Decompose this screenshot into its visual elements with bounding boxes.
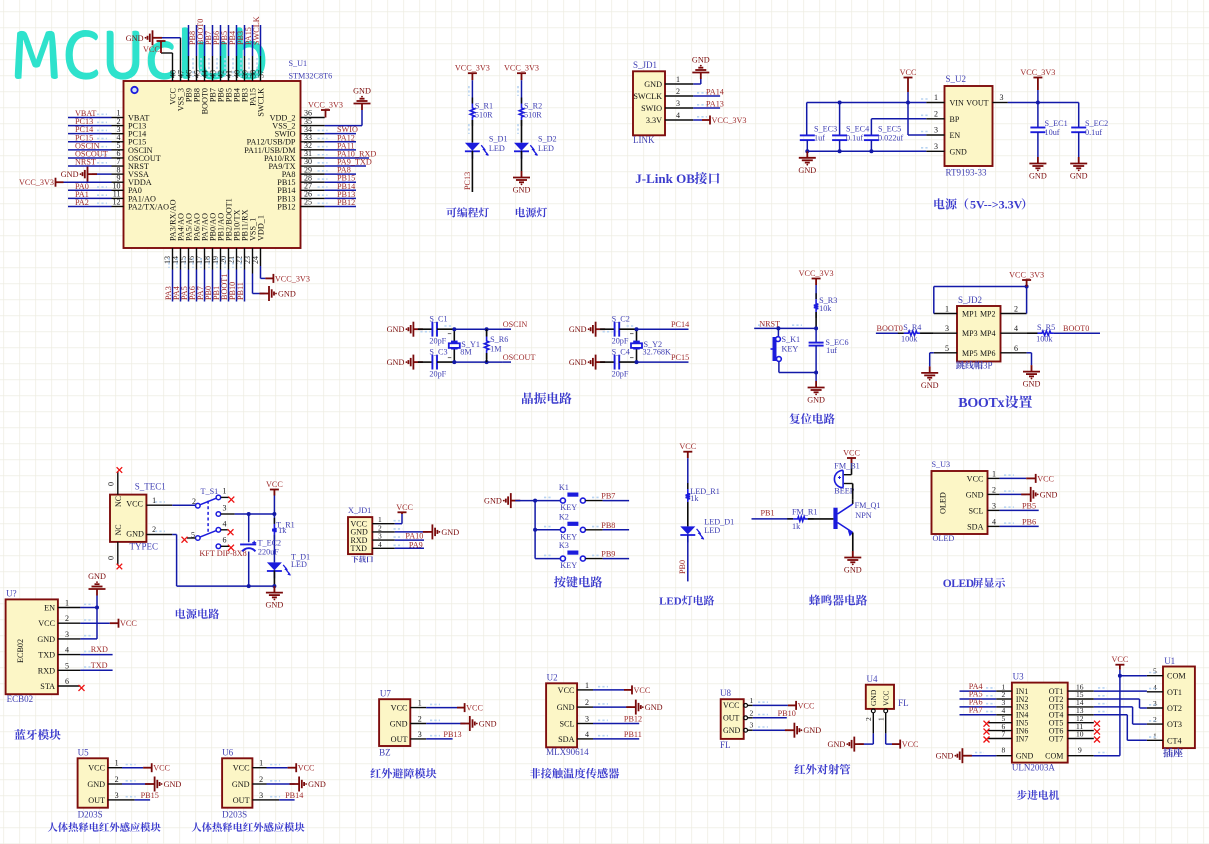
wire net PA6 (bottom) — [196, 248, 198, 270]
wire pin2 down to bottom bus — [172, 534, 176, 536]
svg-text:KEY: KEY — [782, 345, 799, 354]
wire net NRST — [68, 165, 112, 167]
svg-text:GND: GND — [61, 170, 79, 179]
pin 36 VDD_2 to VCC_3V3 flag — [321, 110, 330, 118]
svg-text:3: 3 — [65, 630, 69, 639]
ground (S_C4) — [588, 355, 605, 370]
connector S_JD1 body — [633, 71, 665, 135]
no-connect OT5 — [1094, 721, 1100, 727]
svg-text:KEY: KEY — [560, 561, 577, 570]
wire — [920, 332, 934, 334]
svg-text:10: 10 — [1076, 730, 1084, 739]
wire net PA6 — [960, 706, 997, 708]
svg-text:2: 2 — [152, 525, 156, 534]
svg-text:S_C2: S_C2 — [612, 315, 630, 324]
svg-text:K3: K3 — [559, 541, 569, 550]
svg-text:PB12: PB12 — [337, 198, 355, 207]
wire net SWIO — [325, 133, 356, 135]
svg-text:OUT: OUT — [233, 796, 250, 805]
svg-text:OUT: OUT — [391, 735, 408, 744]
svg-text:OT7: OT7 — [1049, 734, 1064, 743]
wire net PB0 (bottom) — [212, 248, 214, 270]
junction — [906, 101, 910, 105]
pin (buzzer top) — [844, 474, 852, 476]
svg-text:5V-->3.3V: 5V-->3.3V — [970, 198, 1023, 212]
wire net PC14 — [68, 133, 112, 135]
wire net PB14 — [325, 189, 356, 191]
crystal S_Y2 32.768K — [636, 329, 638, 341]
svg-text:SWCLK: SWCLK — [257, 88, 266, 117]
wire pin1 to switch — [172, 504, 195, 506]
svg-text:4: 4 — [992, 517, 996, 526]
svg-text:VCC_3V3: VCC_3V3 — [712, 116, 747, 125]
pin 3 GND (U8) — [744, 728, 748, 732]
wire net PB6 (top) — [220, 56, 222, 81]
pin 4 MP4 (S_JD2 right) — [1001, 332, 1027, 334]
svg-text:GND: GND — [441, 528, 459, 537]
svg-text:1: 1 — [259, 759, 263, 768]
wire net PA10_RXD — [325, 157, 369, 159]
svg-text:NC: NC — [114, 524, 123, 535]
push button S_K1 KEY — [771, 337, 782, 362]
ground at pin 8 VSSA — [92, 173, 112, 175]
wire pin6 to ground — [1027, 352, 1032, 354]
svg-text:S_R5: S_R5 — [1037, 323, 1055, 332]
svg-text:FL: FL — [720, 740, 731, 750]
wire — [418, 328, 433, 330]
pin 4 3.3V (S_JD1) — [665, 119, 693, 121]
svg-text:LED: LED — [538, 144, 554, 153]
svg-text:5: 5 — [65, 661, 69, 670]
svg-text:OT2: OT2 — [1167, 704, 1182, 713]
svg-text:U6: U6 — [222, 748, 233, 758]
svg-text:X_JD1: X_JD1 — [348, 506, 371, 515]
wire VCC pin — [80, 622, 109, 624]
pin 3 SWIO (S_JD1) — [665, 107, 693, 109]
svg-text:SDA: SDA — [967, 522, 983, 531]
wire — [619, 328, 636, 330]
junction — [805, 149, 809, 153]
no-connect IN7 — [984, 737, 990, 743]
ground — [1029, 157, 1046, 171]
svg-text:PA2/TX/AO: PA2/TX/AO — [128, 202, 169, 211]
svg-text:CT4: CT4 — [1167, 736, 1182, 745]
pin 28 PB15 (right) — [301, 181, 325, 183]
ground (OLED) — [1021, 487, 1038, 502]
wire net BOOT0 (right) — [1054, 332, 1100, 334]
svg-text:32.768K: 32.768K — [643, 348, 672, 357]
wire — [808, 518, 834, 520]
svg-text:4: 4 — [585, 730, 589, 739]
svg-text:0.1uf: 0.1uf — [846, 134, 863, 143]
junction — [838, 149, 842, 153]
power flag VCC (regulator input) — [904, 78, 913, 93]
svg-text:3: 3 — [750, 721, 754, 730]
wire — [687, 502, 689, 526]
value 跳线帽3P — [956, 361, 983, 369]
pin 2 GND (U5) — [108, 783, 122, 785]
svg-text:OSCIN: OSCIN — [503, 320, 528, 329]
pin 3 OUT (U7) — [410, 738, 426, 740]
jumper S_JD2 body — [957, 306, 1001, 362]
title 蜂鸣器电路 — [809, 595, 867, 606]
svg-text:GND: GND — [387, 325, 405, 334]
wire pin2 to ground — [593, 706, 631, 708]
svg-text:VCC: VCC — [558, 686, 575, 695]
ground (reset) — [808, 381, 825, 395]
svg-text:S_D1: S_D1 — [489, 135, 508, 144]
svg-text:1: 1 — [934, 93, 938, 102]
svg-text:VCC: VCC — [679, 442, 696, 451]
svg-text:1M: 1M — [490, 345, 502, 354]
connector S_TEC1 TYPEC body — [110, 495, 146, 542]
svg-text:LED: LED — [489, 144, 505, 153]
svg-text:2: 2 — [750, 708, 754, 717]
pin 4 OT1 (U1) — [1147, 691, 1163, 693]
svg-text:VDD_1: VDD_1 — [257, 215, 266, 241]
ground — [1023, 365, 1040, 379]
svg-text:PA10: PA10 — [405, 532, 423, 541]
pin 7 IN7 (U3) — [988, 738, 1012, 740]
svg-text:1k: 1k — [690, 494, 699, 503]
svg-text:GND: GND — [513, 186, 531, 195]
junction — [1036, 101, 1040, 105]
svg-text:LED: LED — [659, 596, 682, 608]
ground (right of MCU) — [354, 96, 371, 110]
pin 1 VCC (S_U3) — [988, 477, 1000, 479]
svg-text:COM: COM — [1167, 672, 1186, 681]
svg-text:VCC: VCC — [902, 740, 919, 749]
junction — [776, 326, 780, 330]
svg-text:20pF: 20pF — [612, 337, 629, 346]
pin 3 MP3 (S_JD2 left) — [934, 332, 957, 334]
title 晶振电路 — [522, 392, 572, 404]
wire pin3 to ground — [753, 729, 790, 731]
svg-text:4: 4 — [378, 540, 382, 549]
svg-text:1uf: 1uf — [826, 346, 837, 355]
power flag VCC (stepper) — [1115, 665, 1124, 670]
pin 13 OT4 (U3) — [1068, 714, 1094, 716]
push button K2 KEY — [535, 529, 560, 531]
capacitor S_EC5 0.022uf — [864, 135, 879, 140]
svg-text:OT1: OT1 — [1167, 688, 1182, 697]
value 插座 — [1163, 748, 1183, 757]
svg-text:PB9: PB9 — [601, 550, 615, 559]
svg-text:BOOT0: BOOT0 — [877, 324, 903, 333]
svg-text:VCC: VCC — [153, 764, 170, 773]
pin (buzzer bottom) — [844, 483, 853, 485]
wire net PA2 — [68, 205, 112, 207]
svg-text:1: 1 — [115, 759, 119, 768]
svg-text:NRST: NRST — [75, 158, 96, 167]
power flag VCC (U8) — [788, 701, 796, 710]
pin 1 IN1 (U3) — [996, 690, 1012, 692]
resistor S_R6 1M — [486, 329, 488, 336]
svg-text:0.022uf: 0.022uf — [878, 134, 904, 143]
pin 9 VDDA (left) — [112, 181, 124, 183]
wire net PA7 (bottom) — [204, 248, 206, 270]
svg-text:PA14: PA14 — [706, 88, 724, 97]
wire net PA15 (top) — [252, 56, 254, 81]
pin 2 GND (U7) — [410, 723, 426, 725]
pin 3 OUT (U6) — [252, 799, 266, 801]
wire pin1 to VCC — [753, 704, 788, 706]
pin 3 IN3 (U3) — [996, 706, 1012, 708]
wire net PB11 (bottom) — [244, 248, 246, 270]
buzzer FM_B1 BEEP — [834, 470, 843, 487]
svg-text:SWCLK: SWCLK — [633, 92, 662, 101]
no-connect pin1 (T_S1) — [221, 496, 229, 498]
svg-text:BOOT0: BOOT0 — [1063, 324, 1089, 333]
pin 1 VBAT (left) — [112, 117, 124, 119]
wire net PB3 (top) — [244, 56, 246, 81]
wire S_R2 top — [521, 80, 523, 103]
wire net PB8 (top) — [196, 56, 198, 81]
wire key bus — [534, 501, 536, 559]
svg-text:VCC: VCC — [38, 619, 55, 628]
svg-text:TXD: TXD — [91, 661, 108, 670]
svg-text:GND: GND — [484, 497, 502, 506]
svg-text:OLED: OLED — [943, 578, 974, 590]
capacitor S_EC4 0.1uf — [832, 135, 847, 140]
wire pin4 to VCC_3V3 — [693, 119, 702, 121]
connector U1 插座 body — [1163, 667, 1195, 749]
resistor FM_R1 1k — [787, 518, 793, 520]
wire pin1 to ground — [693, 83, 701, 85]
pin 7 NRST (left) — [112, 165, 124, 167]
svg-text:VCC: VCC — [843, 449, 860, 458]
svg-text:VCC: VCC — [126, 499, 143, 508]
svg-text:2: 2 — [585, 698, 589, 707]
svg-text:6: 6 — [65, 677, 69, 686]
svg-text:TXD: TXD — [38, 651, 55, 660]
ground (S_C1) — [406, 322, 423, 337]
svg-text:2: 2 — [676, 87, 680, 96]
wire — [454, 328, 502, 330]
junction — [485, 360, 489, 364]
svg-text:VCC: VCC — [881, 691, 890, 706]
svg-text:2: 2 — [1014, 305, 1018, 314]
svg-text:TYPEC: TYPEC — [130, 542, 159, 552]
pin 8 GND (U3) — [996, 755, 1012, 757]
title 人体热释电红外感应模块 — [48, 822, 161, 832]
junction — [814, 326, 818, 330]
svg-text:100k: 100k — [1036, 335, 1053, 344]
pin 3 GND (ECB02) — [58, 638, 81, 640]
power flag VCC (U5) — [143, 763, 152, 772]
svg-text:7: 7 — [1002, 730, 1006, 739]
svg-text:PB11: PB11 — [624, 730, 642, 739]
svg-text:PB10: PB10 — [778, 709, 796, 718]
pin 1 EN (ECB02) — [58, 607, 81, 609]
polar capacitor T_EC2 220uF — [248, 514, 250, 542]
svg-text:VCC: VCC — [266, 480, 283, 489]
svg-text:S_C3: S_C3 — [429, 348, 447, 357]
wire — [1037, 103, 1039, 128]
svg-text:PB7: PB7 — [601, 492, 615, 501]
power flag VCC (buzzer) — [847, 458, 856, 463]
svg-text:S_C1: S_C1 — [429, 315, 447, 324]
wire net OSCOUT — [503, 361, 511, 363]
wire — [619, 361, 636, 363]
ground (U3) — [955, 748, 972, 763]
svg-text:5: 5 — [945, 344, 949, 353]
svg-text:10uf: 10uf — [1045, 128, 1060, 137]
wire net BOOT0 (top) — [204, 56, 206, 81]
svg-text:3: 3 — [259, 791, 263, 800]
title 复位电路 — [789, 413, 834, 424]
pin 2 GND (U2) — [577, 706, 593, 708]
svg-text:ECB02: ECB02 — [7, 694, 34, 704]
wire net PA4 (bottom) — [180, 248, 182, 270]
svg-text:GND: GND — [479, 720, 497, 729]
wire U4 GND — [872, 733, 874, 744]
ground (U4) — [846, 737, 863, 752]
resistor S_R1 510R — [471, 98, 473, 104]
svg-text:3.3V: 3.3V — [646, 116, 662, 125]
wire pin1 to VCC — [395, 523, 402, 525]
svg-text:1uf: 1uf — [814, 134, 825, 143]
pin 2 VCC (ECB02) — [58, 622, 81, 624]
wire net SWCLK (top) — [260, 56, 262, 81]
svg-text:GND: GND — [645, 703, 663, 712]
value 下载口 — [351, 556, 373, 563]
svg-text:1k: 1k — [792, 522, 801, 531]
svg-text:STA: STA — [40, 682, 55, 691]
wire net PB7 — [585, 500, 602, 502]
svg-text:1: 1 — [676, 75, 680, 84]
capacitor S_EC1 10uf — [1030, 128, 1045, 133]
wire net PB13 — [325, 197, 356, 199]
pin 3 RXD (X_JD1) — [372, 539, 395, 541]
junction — [635, 327, 639, 331]
svg-text:VCC_3V3: VCC_3V3 — [275, 274, 310, 283]
svg-text:3: 3 — [676, 99, 680, 108]
svg-text:1: 1 — [585, 681, 589, 690]
svg-text:GND: GND — [387, 358, 405, 367]
svg-text:K2: K2 — [559, 512, 569, 521]
no-connect OT6 — [1094, 729, 1100, 735]
wire S_R1 top — [471, 80, 473, 103]
wire — [248, 552, 250, 587]
svg-text:12: 12 — [113, 198, 121, 207]
svg-text:BEEP: BEEP — [834, 487, 854, 496]
pin 3 OUT (U5) — [108, 799, 122, 801]
wire pin8 to ground — [967, 755, 996, 757]
pin 0 (TYPEC bottom) no-connect — [117, 542, 119, 565]
ground (U7) — [460, 716, 477, 731]
no-connect pin4 (T_S1) — [221, 529, 229, 531]
driver U3 ULN2003A body — [1012, 683, 1068, 763]
svg-text:4: 4 — [1153, 683, 1157, 692]
svg-text:GND: GND — [644, 80, 662, 89]
svg-text:1: 1 — [65, 599, 69, 608]
wire — [437, 328, 454, 330]
svg-text:PB12: PB12 — [277, 202, 295, 211]
no-connect IN5 — [984, 721, 990, 727]
power flag VCC (U2) — [624, 685, 632, 694]
wire net PB1 (bottom) — [220, 248, 222, 270]
pin 30 PA9/TX (right) — [301, 165, 325, 167]
wire net PC13 — [68, 125, 112, 127]
capacitor S_C3 20pF — [432, 355, 437, 370]
svg-text:FM_B1: FM_B1 — [834, 461, 859, 470]
svg-text:GND: GND — [1040, 490, 1058, 499]
svg-text:BOOTx: BOOTx — [958, 396, 1004, 411]
svg-text:8: 8 — [1002, 746, 1006, 755]
svg-text:1: 1 — [418, 699, 422, 708]
wire net PB9 — [585, 558, 602, 560]
wire net NRST — [754, 327, 816, 329]
svg-text:FM_R1: FM_R1 — [792, 508, 817, 517]
svg-text:U1: U1 — [1164, 656, 1175, 666]
power flag VCC (U7) — [457, 703, 465, 712]
svg-text:S_TEC1: S_TEC1 — [135, 482, 166, 492]
wire net PA5 — [960, 698, 997, 700]
wire pin1 to VCC — [122, 767, 143, 769]
svg-text:VCC: VCC — [298, 764, 315, 773]
svg-text:MP3: MP3 — [962, 329, 978, 338]
svg-text:2: 2 — [1153, 715, 1157, 724]
wire — [418, 361, 433, 363]
svg-text:K1: K1 — [559, 483, 569, 492]
svg-text:GND: GND — [557, 703, 575, 712]
resistor T_R1 1k — [273, 518, 275, 524]
wire net PA14 — [693, 95, 720, 97]
wire — [815, 285, 817, 299]
svg-text:25: 25 — [304, 198, 312, 207]
svg-text:S_EC4: S_EC4 — [846, 125, 869, 134]
power flag VCC_3V3 above S_R1 — [468, 73, 477, 80]
svg-text:OLED: OLED — [939, 492, 948, 514]
wire net PA9 — [395, 547, 424, 549]
power flag VCC_3V3 (regulator out) — [1033, 78, 1042, 91]
svg-text:KEY: KEY — [560, 532, 577, 541]
svg-text:220uF: 220uF — [258, 548, 279, 557]
pin 1 VCC (U2) — [577, 689, 593, 691]
junction — [1025, 285, 1029, 289]
svg-text:VCC: VCC — [1037, 474, 1054, 483]
svg-text:TXD: TXD — [351, 544, 368, 553]
svg-text:ULN2003A: ULN2003A — [1012, 763, 1055, 773]
wire pin1 to VCC — [593, 689, 624, 691]
svg-text:GND: GND — [936, 752, 954, 761]
resistor S_R3 10k — [815, 293, 817, 299]
pin 5 RXD (ECB02) — [58, 669, 81, 671]
wire — [273, 535, 275, 563]
svg-text:VCC_3V3: VCC_3V3 — [308, 101, 343, 110]
svg-text:1: 1 — [223, 487, 227, 496]
wire net BOOT1 (bottom) — [228, 248, 230, 270]
svg-text:GND: GND — [278, 290, 296, 299]
connector X_JD1 body — [348, 517, 372, 554]
ground (U6) — [290, 777, 307, 792]
svg-text:3: 3 — [945, 324, 949, 333]
svg-text:3P: 3P — [983, 361, 993, 371]
title 可编程灯 — [446, 207, 489, 217]
svg-text:PA9: PA9 — [409, 541, 423, 550]
svg-text:4: 4 — [223, 519, 227, 528]
pin 4 SDA (U2) — [577, 738, 593, 740]
module U5 D203S body — [78, 758, 108, 807]
power flag VCC (ECB02) — [110, 619, 119, 628]
svg-text:0.1uf: 0.1uf — [1085, 128, 1102, 137]
wire net PB7 (top) — [212, 56, 214, 81]
pin 1 VCC (U8) — [744, 704, 748, 708]
svg-text:D203S: D203S — [78, 810, 103, 820]
pin 35 VSS_2 (right) — [301, 125, 325, 127]
svg-text:GND: GND — [869, 689, 878, 706]
